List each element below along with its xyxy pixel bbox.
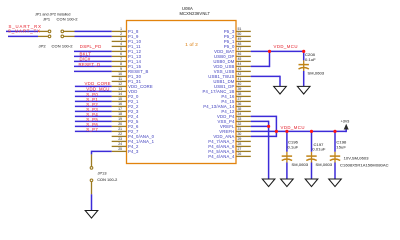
svg-text:24: 24 — [118, 142, 122, 146]
svg-text:6: 6 — [120, 52, 122, 56]
svg-text:29: 29 — [238, 137, 242, 141]
svg-text:4: 4 — [120, 42, 122, 46]
svg-text:40: 40 — [238, 82, 242, 86]
svg-text:27: 27 — [238, 147, 242, 151]
svg-text:38: 38 — [238, 92, 242, 96]
svg-text:VDD_CORE: VDD_CORE — [85, 81, 111, 86]
svg-text:43: 43 — [238, 67, 242, 71]
svg-text:P4_4/ANA_4: P4_4/ANA_4 — [208, 154, 235, 159]
svg-text:1: 1 — [120, 27, 122, 31]
svg-text:36: 36 — [238, 102, 242, 106]
svg-text:7: 7 — [120, 57, 122, 61]
svg-text:44: 44 — [238, 62, 242, 66]
svg-text:15: 15 — [118, 97, 122, 101]
svg-text:5: 5 — [120, 47, 122, 51]
svg-text:32: 32 — [238, 122, 242, 126]
svg-text:33: 33 — [238, 117, 242, 121]
svg-text:9: 9 — [120, 67, 122, 71]
svg-text:RESET_D: RESET_D — [79, 62, 101, 67]
svg-text:SM,0603: SM,0603 — [292, 162, 309, 167]
svg-text:47: 47 — [238, 47, 242, 51]
svg-text:49: 49 — [238, 37, 242, 41]
svg-text:CON 100-2: CON 100-2 — [57, 17, 79, 22]
svg-text:12: 12 — [118, 82, 122, 86]
svg-text:S_UART_TX: S_UART_TX — [8, 28, 41, 33]
svg-text:50: 50 — [238, 32, 242, 36]
svg-text:SM,0603: SM,0603 — [316, 162, 333, 167]
svg-text:CON 100-2: CON 100-2 — [97, 178, 117, 182]
svg-text:17: 17 — [118, 107, 122, 111]
svg-text:VDD_MCU: VDD_MCU — [281, 125, 305, 130]
svg-text:CON 100-2: CON 100-2 — [52, 43, 74, 48]
svg-text:JP2: JP2 — [39, 43, 47, 48]
svg-text:18: 18 — [118, 112, 122, 116]
svg-text:3: 3 — [120, 37, 122, 41]
svg-text:10: 10 — [118, 72, 122, 76]
svg-text:VDD_MCU: VDD_MCU — [86, 87, 109, 92]
svg-text:51: 51 — [238, 27, 242, 31]
svg-text:23: 23 — [118, 137, 122, 141]
svg-text:11: 11 — [118, 77, 122, 81]
svg-text:JP1: JP1 — [43, 17, 51, 22]
svg-text:42: 42 — [238, 72, 242, 76]
svg-text:48: 48 — [238, 42, 242, 46]
svg-text:19: 19 — [118, 117, 122, 121]
svg-text:0.1uF: 0.1uF — [288, 145, 299, 150]
svg-text:46: 46 — [238, 52, 242, 56]
svg-text:45: 45 — [238, 57, 242, 61]
svg-text:35: 35 — [238, 107, 242, 111]
svg-text:30: 30 — [238, 132, 242, 136]
svg-text:14: 14 — [118, 92, 122, 96]
svg-text:21: 21 — [118, 127, 122, 131]
svg-text:15uF: 15uF — [336, 145, 346, 150]
svg-text:SM,0603: SM,0603 — [308, 71, 325, 76]
svg-text:DSPL_PD: DSPL_PD — [80, 44, 102, 49]
svg-text:C1608X5R1A156M080AC: C1608X5R1A156M080AC — [340, 163, 389, 168]
svg-text:39: 39 — [238, 87, 242, 91]
svg-text:S_P7: S_P7 — [86, 127, 98, 132]
svg-text:0.01uF: 0.01uF — [312, 147, 326, 152]
svg-text:20: 20 — [118, 122, 122, 126]
svg-text:22: 22 — [118, 132, 122, 136]
svg-text:41: 41 — [238, 77, 242, 81]
svg-text:34: 34 — [238, 112, 242, 116]
svg-text:25: 25 — [118, 147, 122, 151]
svg-text:28: 28 — [238, 142, 242, 146]
svg-text:10V,SM,0603: 10V,SM,0603 — [344, 155, 370, 160]
svg-text:31: 31 — [238, 127, 242, 131]
svg-text:MCXN236VNLT: MCXN236VNLT — [180, 11, 211, 16]
svg-text:37: 37 — [238, 97, 242, 101]
svg-text:D/C#: D/C# — [80, 57, 91, 62]
svg-text:0.1uF: 0.1uF — [305, 57, 316, 62]
svg-text:8: 8 — [120, 62, 122, 66]
svg-text:2: 2 — [120, 32, 122, 36]
svg-text:26: 26 — [238, 152, 242, 156]
svg-text:VDD_MCU: VDD_MCU — [274, 44, 298, 49]
svg-text:JP13: JP13 — [98, 171, 107, 175]
svg-text:1 of 2: 1 of 2 — [185, 42, 198, 47]
svg-text:P4_3: P4_3 — [128, 149, 139, 154]
svg-text:13: 13 — [118, 87, 122, 91]
svg-text:+3V3: +3V3 — [341, 120, 350, 124]
svg-text:16: 16 — [118, 102, 122, 106]
